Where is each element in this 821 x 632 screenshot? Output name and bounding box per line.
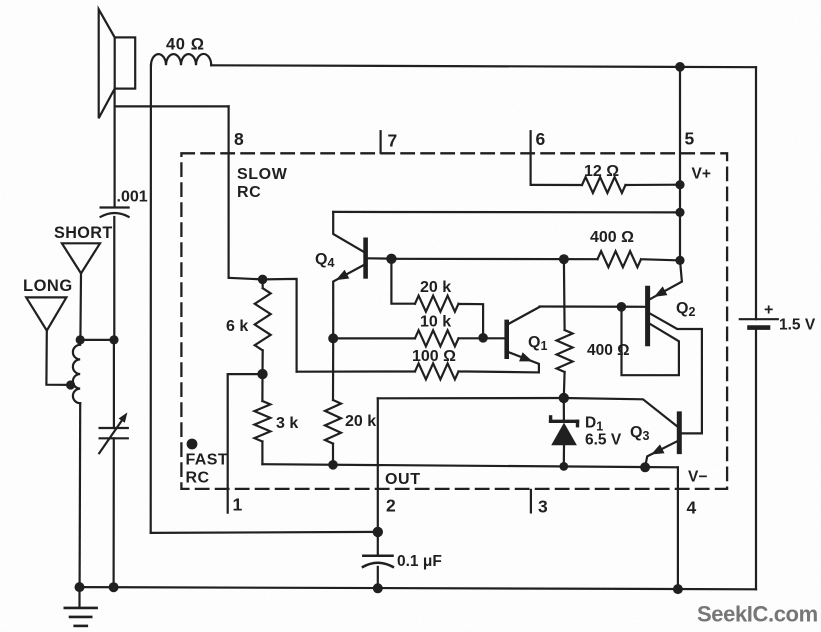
- node: 400ohm-vertical top tap: [559, 254, 569, 264]
- variable capacitor: [99, 412, 128, 453]
- node: OUT junction: [373, 527, 383, 537]
- capacitor .001: [101, 208, 129, 217]
- node: LONG tap on coil: [66, 380, 75, 389]
- wire: Q4 base row to 400 ohm: [391, 258, 597, 261]
- wire: speaker bottom terminal to pin 8 (y=106): [115, 105, 229, 107]
- wire: OUT node row y=398 to Q3 base: [378, 398, 678, 426]
- transistor Q3: [645, 414, 702, 467]
- transistor Q1: [507, 307, 540, 373]
- transistor Q2: [622, 260, 702, 433]
- wire: speaker/cap column x=114.6: [113, 89, 115, 208]
- wire: bottom rail: [80, 587, 757, 589]
- wire: row at y=340: [80, 339, 114, 341]
- pin 4 wire: [677, 467, 679, 589]
- speaker LS: [99, 9, 136, 118]
- wire: right rail upper (corner to battery +): [755, 67, 757, 319]
- scan noise overlay (decorative): [0, 0, 1, 1]
- wire: drop from Q4 base to 20k: [391, 259, 415, 304]
- node: D1 bottom junction: [559, 462, 568, 471]
- pin 7 stub: [380, 131, 382, 153]
- node: ground junction: [75, 582, 85, 592]
- battery 1.5V: [740, 319, 778, 327]
- pin 3 stub: [530, 490, 532, 513]
- node: Q3 emitter junction: [640, 462, 650, 472]
- node: 0.1uF on bottom rail: [373, 583, 383, 593]
- wire: 6k/3k junction to pin 1: [228, 374, 263, 512]
- wire: varcap column lower: [112, 438, 114, 587]
- wire: rail y=212 (Q4 collector to V+): [333, 211, 680, 214]
- wire: bottom row y=465 (3k bottom to pin4 corner): [262, 464, 678, 467]
- pin 8 internal branch: [229, 278, 297, 372]
- node: 12ohm right end: [675, 180, 684, 189]
- antenna coil: [73, 340, 80, 403]
- IC dashed outline: [181, 153, 727, 489]
- node: Q4 base junction: [386, 254, 396, 264]
- node: y212 rail right end: [675, 208, 684, 217]
- node: varcap line on bottom rail: [109, 582, 119, 592]
- node: top rail / pin5 junction: [675, 62, 685, 72]
- inductor 40ohm choke: [151, 54, 211, 65]
- pin 5 / V+ wire: [679, 67, 681, 261]
- transistor Q4: [333, 212, 389, 339]
- resistor 6 k: [255, 279, 271, 374]
- wire: top rail from inductor to right corner: [211, 65, 756, 67]
- resistor 12 ohm: [531, 177, 680, 193]
- resistor 400 ohm (top): [598, 251, 681, 267]
- antenna SHORT: [62, 243, 100, 340]
- node: 6k/3k junction: [257, 369, 267, 379]
- node: Q2 emitter top: [675, 256, 684, 265]
- node: D1 top junction: [559, 393, 569, 403]
- node: Q2 base / second collector junction: [617, 302, 627, 312]
- resistor 100 ohm: [297, 363, 539, 379]
- pin 2 / OUT wire: [377, 398, 379, 532]
- capacitor 0.1uF: [363, 532, 393, 588]
- wire: cap to coil-top row: [113, 217, 115, 340]
- node: pin4 on bottom rail: [673, 584, 683, 594]
- diode D1 (zener 6.5V): [551, 398, 578, 466]
- ground: [65, 587, 97, 626]
- antenna LONG: [26, 297, 70, 385]
- resistor 400 ohm (vertical): [557, 259, 573, 398]
- wire: right rail lower (battery - to bottom rail): [755, 328, 757, 590]
- wire: row y=532 to OUT node: [151, 532, 378, 533]
- node: 20k bottom / 10k row junction: [478, 333, 488, 343]
- wire: inductor left end down to y=532 row: [150, 65, 152, 533]
- node: Q4 emitter / 10k / 20k-vert junction: [328, 333, 338, 343]
- pin 8 wire: [228, 106, 230, 277]
- label FAST RC dot: [187, 439, 198, 450]
- wire: rail y=306.5 Q1 collector to Q2 base: [540, 305, 646, 307]
- wire: varcap column upper: [113, 340, 115, 428]
- node: coil top right: [109, 335, 118, 344]
- resistor 20 k (vertical): [325, 338, 341, 464]
- resistor 10 k: [333, 330, 504, 346]
- node: 6k top junction: [258, 275, 268, 285]
- node: 20k-vert bottom: [328, 460, 338, 470]
- wire: coil bottom to ground rail: [78, 403, 81, 587]
- resistor 20 k (upper): [415, 296, 483, 338]
- resistor 3 k: [254, 374, 270, 464]
- node: coil top left: [76, 335, 85, 344]
- pin 6 wire: [529, 131, 531, 185]
